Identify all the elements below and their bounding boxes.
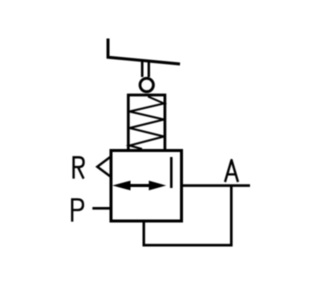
valve body U1 xyxy=(111,151,182,222)
internal passage line xyxy=(170,157,173,188)
A port line xyxy=(182,184,251,187)
feedback pilot line xyxy=(144,186,232,246)
lever L1 xyxy=(108,39,180,65)
spring xyxy=(130,97,165,150)
port label A xyxy=(225,160,238,182)
P port line xyxy=(92,207,111,210)
spring chamber box xyxy=(128,95,165,151)
roller stem xyxy=(142,61,149,77)
roller xyxy=(140,78,153,91)
port label R xyxy=(74,157,84,178)
port label P xyxy=(72,199,83,221)
flow arrow (double-headed) xyxy=(128,184,152,187)
exhaust triangle (R vent) xyxy=(97,157,110,177)
